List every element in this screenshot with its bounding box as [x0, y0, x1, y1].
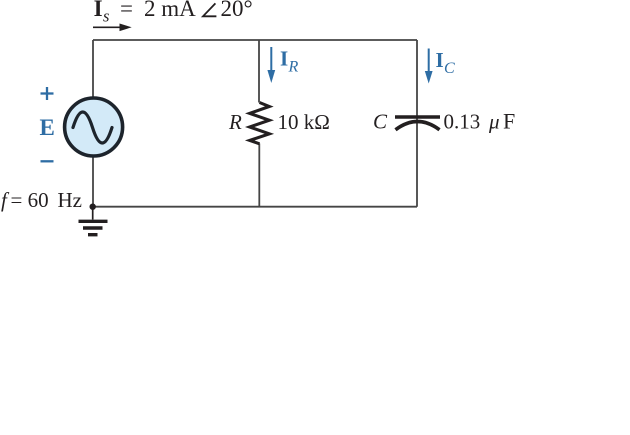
wire bottom rail: [93, 206, 417, 208]
capacitor C top plate: [395, 115, 440, 119]
svg-text:R: R: [228, 110, 242, 134]
svg-text:10 kΩ: 10 kΩ: [278, 110, 330, 134]
current arrow IC (blue): [425, 49, 433, 84]
plus sign of source (blue): [41, 87, 54, 100]
svg-text:I: I: [280, 46, 288, 70]
label E (blue): [40, 115, 55, 140]
value 10 kOhm: [278, 110, 330, 134]
ground: [79, 207, 108, 235]
svg-text:0.13: 0.13: [444, 110, 481, 134]
svg-text:E: E: [40, 115, 55, 140]
AC voltage source E (circle with sine): [65, 98, 123, 156]
svg-text:s: s: [103, 7, 109, 26]
svg-text:C: C: [444, 60, 455, 77]
svg-text:= 60: = 60: [11, 188, 49, 212]
capacitor C curved plate: [396, 122, 440, 130]
wire middle branch bottom: [258, 144, 260, 207]
svg-text:20°: 20°: [221, 0, 253, 21]
wire left top (source to top rail): [92, 40, 94, 98]
svg-text:F: F: [503, 109, 515, 134]
svg-text:f: f: [1, 188, 10, 212]
wire top (node a to node b): [93, 39, 417, 41]
svg-text:R: R: [288, 58, 299, 75]
label C: [373, 110, 388, 134]
svg-text:μ: μ: [488, 110, 500, 134]
node junction dot: [90, 204, 96, 210]
angle symbol: [203, 3, 216, 16]
wire right branch: [416, 40, 418, 207]
current arrow Is (black): [93, 24, 132, 32]
label IC (blue): [436, 48, 456, 77]
label f = 60 Hz: [1, 188, 82, 212]
current arrow IR (blue): [267, 47, 275, 83]
minus sign of source (blue): [41, 160, 54, 162]
svg-text:Hz: Hz: [58, 188, 83, 212]
label IR (blue): [280, 46, 299, 75]
svg-text:C: C: [373, 110, 388, 134]
wire left bottom (source to bottom rail): [92, 156, 94, 207]
wire middle branch top: [258, 40, 260, 103]
label Is = 2 mA angle 20deg: [94, 0, 253, 26]
resistor R zigzag: [250, 103, 270, 144]
svg-text:I: I: [94, 0, 103, 21]
svg-text:=: =: [120, 0, 133, 21]
svg-text:I: I: [436, 48, 444, 72]
svg-text:2 mA: 2 mA: [144, 0, 196, 21]
label R: [228, 110, 242, 134]
value 0.13 uF: [444, 109, 516, 134]
